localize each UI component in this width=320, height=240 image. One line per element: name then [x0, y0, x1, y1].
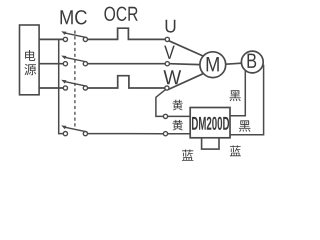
label B [248, 54, 257, 68]
wire V phase: box to contact [39, 63, 63, 65]
power source box 电源 [20, 25, 40, 95]
wire V to terminal V [88, 63, 166, 65]
contactor contact MC-V (normally-open) [61, 56, 87, 66]
wire terminal V to motor [169, 63, 200, 66]
label MC [61, 10, 87, 24]
wire branch tap from U line down to brake contact [59, 39, 64, 133]
terminal V [165, 62, 169, 66]
label 黄 yellow #1 [173, 100, 183, 111]
contactor contact MC-W (normally-open) [61, 80, 87, 90]
label W [164, 70, 182, 84]
label 蓝 blue #2 [230, 145, 241, 156]
wire W with OCR heater bump to terminal W [88, 76, 165, 88]
label DM200D [192, 117, 229, 130]
terminal W [165, 86, 169, 90]
brake B circle [241, 51, 263, 73]
motor M circle [200, 52, 226, 78]
wire W phase: box to contact [39, 87, 63, 89]
wire terminal W to motor [169, 73, 205, 89]
label 黑 black #2 [239, 120, 251, 131]
terminal U [165, 37, 169, 41]
rectifier connector block [202, 138, 219, 149]
wire motor to brake [226, 62, 242, 65]
label U [166, 20, 176, 33]
MC mechanical linkage dashed line [74, 31, 76, 128]
wire U phase: box to contact [39, 38, 63, 40]
label 蓝 blue #1 [182, 150, 194, 161]
label 黄 yellow #2 [173, 120, 183, 131]
black wire 2: brake right terminal to rectifier [230, 65, 264, 135]
label 电 (power) [25, 50, 35, 61]
wire terminal U to motor [169, 41, 204, 57]
rectifier DM200D box [190, 108, 230, 138]
black wire 1: brake left terminal to rectifier [230, 71, 245, 116]
wire U with OCR heater bump to terminal U [88, 28, 166, 39]
label M [207, 57, 219, 71]
label 源 (source) [24, 64, 36, 76]
contactor contact MC-U (normally-open) [61, 31, 87, 41]
wire crimp to rectifier input 1 [168, 115, 191, 117]
crimp terminal yellow 2 [163, 132, 167, 136]
crimp terminal yellow 1 [163, 114, 167, 118]
wire crimp to rectifier input 2 [168, 133, 191, 135]
yellow wire 1: terminal W tap down to crimp terminal [156, 90, 165, 117]
contactor contact MC-brake (normally-open) [61, 125, 87, 135]
label V [164, 46, 174, 59]
label OCR [104, 7, 137, 21]
label 黑 black #1 [230, 90, 241, 101]
yellow wire 2: brake contact to crimp terminal [88, 133, 164, 135]
